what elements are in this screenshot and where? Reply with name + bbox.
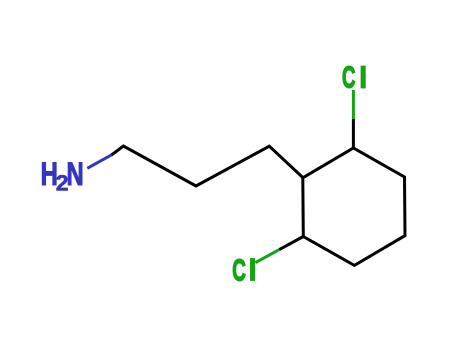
svg-text:C: C bbox=[342, 60, 355, 95]
svg-text:l: l bbox=[359, 60, 368, 95]
svg-text:N: N bbox=[67, 156, 84, 192]
svg-text:l: l bbox=[248, 253, 257, 288]
svg-text:C: C bbox=[232, 253, 246, 288]
